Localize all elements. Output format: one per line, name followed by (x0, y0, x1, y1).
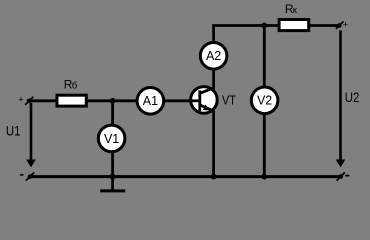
arrow U1 (26, 103, 36, 167)
wire: resistor Rb to ammeter A1 (86, 99, 137, 102)
wire: ammeter A2 up and top rail to + terminal (214, 26, 340, 43)
terminal - of U2 (337, 173, 350, 181)
voltmeter V2 (251, 87, 278, 114)
wire: voltmeter V1 down to bottom rail (111, 152, 114, 177)
ground (100, 177, 125, 192)
svg-text:V2: V2 (257, 94, 272, 108)
ammeter A1 (137, 88, 164, 115)
ammeter A2 (200, 43, 227, 70)
transistor VT (191, 87, 237, 114)
wire: transistor emitter down to bottom rail (212, 109, 215, 177)
resistor Rк (279, 2, 309, 30)
resistor Rб (57, 78, 86, 106)
terminal - of U1 (20, 173, 34, 181)
svg-text:VT: VT (222, 93, 236, 107)
wire: junction down to voltmeter V1 (111, 101, 114, 125)
wire: ammeter A1 to transistor base (164, 99, 192, 102)
arrow U2 (336, 31, 346, 168)
svg-text:V1: V1 (104, 132, 119, 146)
wire: top junction down to voltmeter V2 (263, 26, 266, 88)
svg-text:U1: U1 (6, 123, 21, 138)
svg-text:A2: A2 (206, 49, 221, 63)
node: junction on base wire above V1 (110, 98, 116, 104)
wire: left input to resistor Rb (29, 99, 57, 102)
wire: voltmeter V2 down to bottom rail (263, 114, 266, 177)
wire: transistor collector up to ammeter A2 (212, 70, 215, 91)
svg-text:+: + (343, 20, 348, 30)
node: junction on top rail above V2 (261, 23, 267, 29)
node: junction at rail under V2 (261, 174, 267, 180)
svg-text:U2: U2 (345, 90, 360, 105)
terminal + of U1 (18, 95, 33, 105)
wire: bottom rail (29, 175, 341, 178)
voltmeter V1 (98, 125, 125, 152)
svg-text:б: б (72, 81, 78, 92)
svg-text:A1: A1 (143, 94, 158, 108)
terminal + of U2 (336, 20, 348, 30)
svg-text:+: + (18, 95, 23, 105)
node: junction at rail under emitter (211, 174, 217, 180)
node: junction at rail under V1 (110, 174, 116, 180)
